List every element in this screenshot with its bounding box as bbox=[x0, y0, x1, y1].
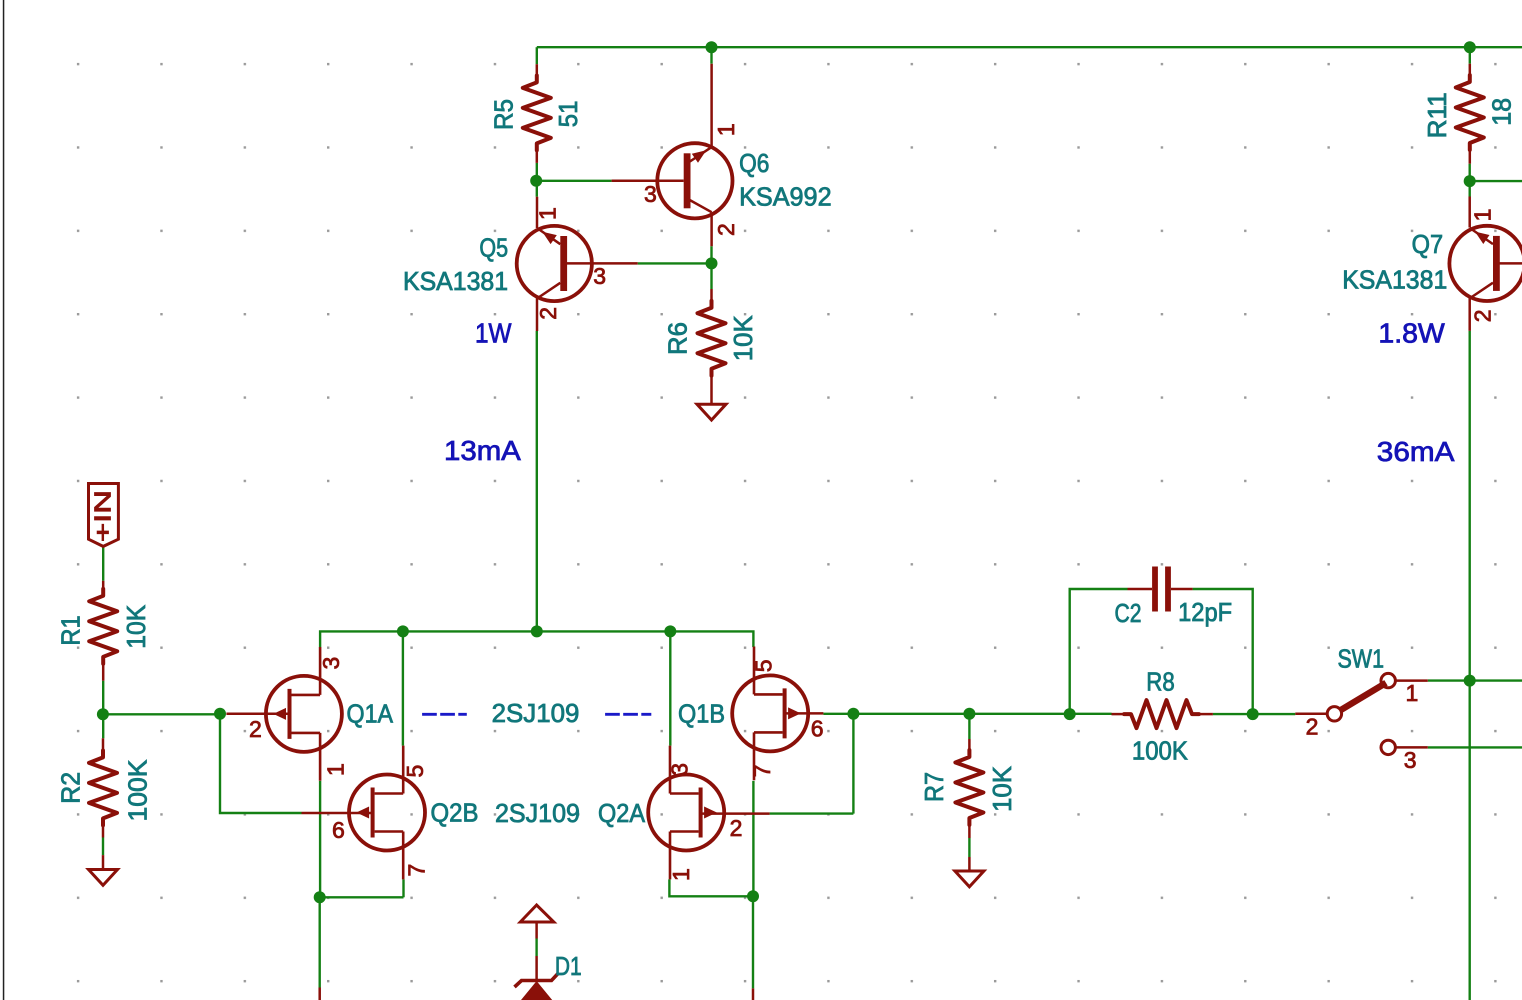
svg-text:Q2A: Q2A bbox=[598, 798, 646, 828]
svg-text:Q6: Q6 bbox=[739, 148, 769, 178]
svg-text:5: 5 bbox=[402, 765, 428, 778]
svg-text:100K: 100K bbox=[123, 759, 153, 822]
svg-text:1: 1 bbox=[323, 763, 349, 776]
svg-text:6: 6 bbox=[811, 716, 824, 742]
svg-text:3: 3 bbox=[318, 657, 344, 670]
svg-text:10K: 10K bbox=[987, 765, 1017, 812]
svg-text:Q7: Q7 bbox=[1412, 229, 1444, 259]
svg-text:6: 6 bbox=[332, 817, 345, 843]
svg-text:7: 7 bbox=[749, 764, 775, 777]
svg-text:R5: R5 bbox=[488, 99, 518, 130]
svg-text:C2: C2 bbox=[1115, 598, 1142, 628]
svg-text:12pF: 12pF bbox=[1178, 597, 1232, 627]
svg-text:2: 2 bbox=[1306, 714, 1319, 740]
svg-text:3: 3 bbox=[1404, 747, 1417, 773]
svg-text:D1: D1 bbox=[555, 951, 582, 981]
svg-text:13mA: 13mA bbox=[444, 435, 521, 466]
svg-text:SW1: SW1 bbox=[1338, 644, 1385, 674]
svg-text:2: 2 bbox=[713, 223, 739, 236]
svg-text:18: 18 bbox=[1487, 98, 1517, 126]
svg-text:R11: R11 bbox=[1422, 92, 1452, 138]
svg-text:5: 5 bbox=[751, 659, 777, 672]
svg-text:3: 3 bbox=[593, 263, 606, 289]
svg-text:10K: 10K bbox=[121, 604, 151, 649]
svg-text:R1: R1 bbox=[56, 615, 86, 645]
svg-text:1: 1 bbox=[1469, 209, 1495, 222]
svg-text:R6: R6 bbox=[663, 322, 693, 355]
svg-text:10K: 10K bbox=[728, 315, 758, 362]
svg-text:Q2B: Q2B bbox=[431, 798, 479, 828]
svg-text:Q1A: Q1A bbox=[347, 699, 394, 729]
svg-text:3: 3 bbox=[667, 763, 693, 776]
svg-text:1: 1 bbox=[668, 868, 694, 881]
svg-text:KSA992: KSA992 bbox=[739, 181, 832, 211]
svg-text:1W: 1W bbox=[475, 318, 512, 349]
svg-text:2SJ109: 2SJ109 bbox=[495, 798, 580, 828]
svg-text:7: 7 bbox=[404, 864, 430, 877]
svg-text:R7: R7 bbox=[919, 772, 949, 802]
svg-text:Q1B: Q1B bbox=[678, 699, 725, 729]
svg-text:2SJ109: 2SJ109 bbox=[492, 698, 580, 728]
svg-text:51: 51 bbox=[553, 101, 583, 128]
svg-text:2: 2 bbox=[249, 716, 262, 742]
svg-text:1.8W: 1.8W bbox=[1378, 317, 1445, 348]
svg-text:2: 2 bbox=[730, 815, 743, 841]
svg-text:+IN: +IN bbox=[90, 490, 116, 542]
svg-text:R2: R2 bbox=[56, 772, 86, 804]
svg-text:100K: 100K bbox=[1132, 735, 1189, 765]
svg-text:3: 3 bbox=[644, 181, 657, 207]
svg-text:KSA1381: KSA1381 bbox=[1342, 265, 1447, 295]
svg-text:R8: R8 bbox=[1146, 667, 1174, 697]
svg-text:36mA: 36mA bbox=[1377, 436, 1455, 467]
svg-text:2: 2 bbox=[535, 307, 561, 320]
svg-text:1: 1 bbox=[1406, 680, 1419, 706]
svg-text:1: 1 bbox=[713, 123, 739, 136]
svg-text:Q5: Q5 bbox=[479, 233, 508, 263]
svg-text:KSA1381: KSA1381 bbox=[403, 266, 508, 296]
svg-text:1: 1 bbox=[535, 207, 561, 220]
svg-text:2: 2 bbox=[1469, 309, 1495, 322]
